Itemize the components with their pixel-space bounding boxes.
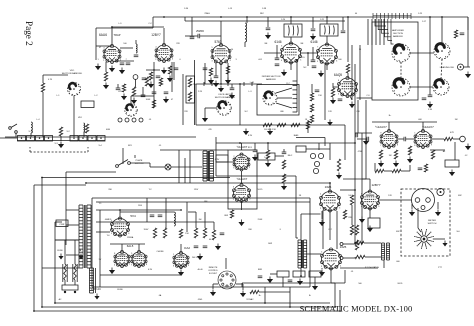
- wire ts rail: [270, 273, 277, 275]
- wire strip down: [282, 277, 284, 287]
- wire T1 top to grid upper: [301, 213, 321, 215]
- plate switch contact b: [128, 162, 131, 165]
- svg-text:SW: SW: [108, 189, 111, 191]
- wire 6AU6 cathode: [105, 62, 107, 72]
- wire vert x185: [184, 17, 186, 21]
- capacitor C49 12BY7: [156, 76, 161, 78]
- wire y84 tick e: [251, 82, 253, 86]
- fuse F1 wavy: [64, 264, 67, 280]
- keying relay box: [296, 146, 306, 152]
- resistor R6 screen dropping: [188, 92, 191, 101]
- resistor R23 audio out: [444, 137, 453, 140]
- HV label box: [216, 155, 228, 162]
- ground ps caps: [197, 254, 203, 261]
- wire audio lower vert: [374, 163, 376, 171]
- ground top mid cap: [265, 33, 271, 40]
- capacitor C12 6AQ5: [338, 99, 343, 101]
- wire L2 horiz y177: [42, 177, 230, 179]
- svg-text:½12AX7: ½12AX7: [237, 145, 248, 149]
- filament transformer T3: [203, 151, 207, 181]
- wire neut b: [312, 47, 314, 60]
- wire L4 vert x55: [54, 222, 56, 303]
- svg-text:PLATE: PLATE: [136, 159, 143, 162]
- wire top bus second: [185, 20, 345, 22]
- wire padder: [231, 84, 233, 88]
- capacitor trap: [134, 55, 139, 57]
- junction at 362,243: [361, 242, 363, 244]
- transformer tap d: [66, 254, 79, 256]
- neon lamp NE3: [314, 161, 319, 166]
- resistor R10: [85, 124, 88, 133]
- wire x366 ext: [365, 125, 367, 179]
- svg-text:BANDSW.: BANDSW.: [266, 78, 277, 81]
- svg-text:6.3V: 6.3V: [248, 135, 253, 137]
- wire x308 riser: [307, 120, 309, 133]
- resistor R8 VFO: [41, 83, 44, 92]
- ground C44: [213, 81, 219, 88]
- wire plug b: [74, 280, 76, 285]
- wire OA2 top: [180, 244, 182, 253]
- tube V11 1625 modulator: [320, 190, 341, 212]
- wire switch left: [205, 107, 217, 109]
- wire V13 plate: [369, 179, 371, 191]
- ground R44: [265, 161, 271, 168]
- driver transformer T1 secondary: [304, 240, 307, 268]
- wire right mid vert x358: [357, 100, 359, 133]
- svg-text:250K: 250K: [258, 219, 263, 221]
- resistor R1 6AU6 cathode: [104, 72, 107, 81]
- capacitor C42: [164, 92, 169, 94]
- ground mic body: [409, 210, 415, 217]
- neon lamp NE2: [318, 153, 323, 158]
- svg-text:GND: GND: [198, 299, 203, 301]
- wire V8 out: [431, 138, 444, 140]
- tube V2 12BY7 buffer: [155, 43, 173, 62]
- junction mod screen: [354, 189, 356, 191]
- wire y202 ps: [96, 201, 310, 203]
- capacitor C50 ps: [220, 233, 225, 235]
- svg-text:BANDSW.: BANDSW.: [393, 35, 404, 38]
- wire L2 vert x42: [41, 178, 43, 308]
- svg-text:SECTION BANDSW.: SECTION BANDSW.: [62, 72, 83, 75]
- svg-text:P-1 PH. PATCH: P-1 PH. PATCH: [365, 266, 380, 269]
- ground C30a: [310, 34, 316, 41]
- svg-text:115V: 115V: [194, 189, 199, 191]
- junction at 164,17: [163, 16, 165, 18]
- wire plug a3: [66, 264, 68, 282]
- wire crystal row left stub: [0, 137, 17, 139]
- wire bottom bus to mod: [339, 290, 341, 311]
- capacitor C41: [141, 95, 146, 97]
- wire vert 6AQ5 screen: [347, 17, 349, 62]
- terminal strip TS1: [277, 271, 289, 277]
- wire speech box down: [241, 201, 243, 210]
- resistor R11 divider: [310, 93, 313, 101]
- wire feeder x368: [367, 19, 369, 45]
- resistor R45 ps: [194, 228, 197, 238]
- junction at 154,70: [153, 69, 155, 71]
- transformer tap b: [66, 224, 79, 226]
- svg-text:100K: 100K: [146, 99, 151, 101]
- resistor R46 ps: [203, 228, 206, 238]
- wire crystal row lower rail: [17, 140, 105, 142]
- tube V4 6146 final amplifier: [281, 42, 302, 64]
- wire y283: [301, 282, 345, 284]
- svg-text:12BY7: 12BY7: [371, 183, 380, 187]
- wire grid left: [95, 46, 97, 60]
- fuse F2 wavy: [74, 264, 77, 280]
- capacitor C46 ps: [194, 246, 199, 248]
- wire 5763 to switch: [220, 63, 222, 84]
- terminal strip accessory: [445, 160, 459, 167]
- tube V7 12AX7 audio amp: [380, 129, 398, 148]
- ground crystal center: [58, 142, 64, 149]
- wire audio lower rail 2: [401, 170, 410, 172]
- ground 12BY7 cathode: [167, 76, 173, 83]
- junction at 301,276: [300, 275, 302, 277]
- svg-text:SCHEMATIC MODEL DX-100: SCHEMATIC MODEL DX-100: [300, 304, 413, 314]
- wire trap join: [120, 47, 133, 49]
- wire L1 horiz y172: [66, 171, 116, 173]
- junction y143 a: [239, 142, 241, 144]
- speech amp enclosure box: [228, 150, 257, 209]
- svg-text:470K: 470K: [358, 151, 363, 153]
- wire vert RF choke top: [246, 17, 248, 23]
- ground 6AQ5 cathode: [349, 102, 355, 109]
- wire cap gnd arrow: [267, 17, 269, 27]
- capacitor C16 audio coupling: [404, 137, 406, 142]
- wire between finals: [301, 52, 318, 54]
- box VFO trimmer: [81, 101, 94, 108]
- ground output jack: [465, 72, 471, 79]
- wire R23 to J3: [453, 138, 460, 140]
- wire mod y283 b: [344, 270, 346, 283]
- capacitor C30a: [311, 29, 316, 31]
- junction bus c: [41, 306, 43, 308]
- svg-text:CONTROL: CONTROL: [208, 270, 219, 272]
- wire fuse left rail: [55, 239, 65, 241]
- wire feeder x372b: [371, 19, 373, 45]
- svg-text:6.3V: 6.3V: [215, 159, 220, 161]
- wire loading cap riser: [429, 43, 431, 95]
- ground below 5763: [218, 86, 224, 93]
- resistor R4 12BY7 cathode: [168, 66, 171, 74]
- wire audio term a2: [364, 242, 381, 244]
- driver switch fan a: [276, 88, 292, 93]
- svg-text:6AQ5: 6AQ5: [334, 73, 342, 77]
- trap coil L5: [136, 44, 137, 53]
- wire HV feeder x355: [354, 64, 356, 243]
- resistor R43: [226, 66, 229, 74]
- svg-text:20K 10W: 20K 10W: [192, 257, 200, 259]
- junction bus b: [289, 306, 291, 308]
- svg-text:6.3V: 6.3V: [148, 269, 153, 271]
- coil L2: [84, 123, 85, 132]
- microphone connector pin 2: [426, 198, 431, 203]
- phone jack J3: [460, 136, 466, 142]
- wire meter link: [418, 228, 421, 232]
- junction at 240,84: [239, 83, 241, 85]
- wire speech to T1 vert: [295, 176, 297, 238]
- wire 6AU6 plate: [111, 38, 113, 46]
- svg-text:PWR: PWR: [60, 224, 65, 226]
- junction at 340,311: [339, 310, 341, 312]
- junction at 221,84: [220, 83, 222, 85]
- svg-text:25MFD: 25MFD: [196, 30, 204, 33]
- power transformer lower winding: [90, 268, 94, 293]
- wire coil bus: [196, 83, 262, 85]
- wire V12 down: [330, 269, 332, 284]
- wire audio term b: [343, 257, 355, 259]
- svg-text:1M: 1M: [455, 119, 458, 121]
- capacitor C5 12BY7 bypass: [174, 68, 179, 70]
- wire x194 vert: [194, 60, 196, 125]
- wire riser x166: [165, 198, 167, 228]
- ground R43: [225, 78, 231, 85]
- power supply chassis left: [91, 198, 93, 287]
- wire lamp to transformer: [171, 166, 202, 168]
- wire feeder x380: [379, 19, 381, 45]
- wire ps down x205: [204, 212, 206, 228]
- ground osc grid leak: [95, 64, 101, 71]
- wire 6AQ5 grid: [333, 86, 339, 88]
- crystal mic jack pin: [440, 191, 442, 193]
- pilot lamp: [165, 164, 171, 170]
- wire speech to T1 corner: [296, 237, 298, 239]
- junction bottom bus: [54, 302, 56, 304]
- power supply chassis top2: [92, 197, 310, 199]
- wire loading top: [441, 17, 443, 43]
- wire T3 core a: [207, 151, 209, 181]
- wire x143: [142, 87, 144, 95]
- wire V8 plate: [422, 122, 424, 131]
- wire ps label rail: [96, 231, 110, 233]
- box screen divider: [186, 76, 195, 103]
- crystal socket pin c2: [125, 118, 129, 122]
- power transformer T4 primary: [79, 205, 83, 268]
- crystal socket X4: [45, 136, 53, 142]
- ground 6146 no2 cathode: [318, 71, 324, 78]
- wire osc plate horiz: [96, 45, 112, 47]
- ground 6AU6 cathode: [103, 83, 109, 90]
- junction at 291,17: [290, 16, 292, 18]
- svg-text:1M: 1M: [409, 151, 412, 153]
- terminal strip TS3: [309, 271, 321, 277]
- ground 6AL5: [109, 268, 115, 275]
- wire L1 vert x66: [65, 172, 67, 245]
- svg-text:SWITCH: SWITCH: [428, 223, 437, 225]
- wire vert x96 osc plate: [95, 28, 97, 46]
- wire key jack lead: [135, 80, 137, 88]
- ground loading caps: [427, 102, 433, 109]
- junction at 112,27: [111, 26, 113, 28]
- wire divider top: [311, 84, 313, 93]
- wire 1625 plate tie: [329, 183, 331, 191]
- crystal socket X6 pin: [82, 138, 83, 139]
- power transformer core b: [85, 205, 87, 268]
- resistor R51 OA2 dropping: [179, 229, 182, 238]
- wire mod bias vert: [351, 205, 353, 225]
- tube V12 1625 modulator: [321, 248, 342, 270]
- svg-text:10W: 10W: [268, 243, 272, 245]
- resistor R41: [159, 78, 162, 86]
- wire ps riser x190: [189, 150, 191, 183]
- wire mic pin to meter b: [437, 202, 439, 209]
- crystal socket X4 pin: [48, 138, 49, 139]
- wire right verts x352: [351, 45, 353, 100]
- junction at 335,307: [334, 306, 336, 308]
- wire xtal switch up: [130, 96, 132, 104]
- ground ts: [267, 277, 273, 284]
- crystal socket X2: [27, 136, 35, 142]
- svg-text:½12AX7: ½12AX7: [422, 125, 434, 129]
- capacitor C20 filter: [158, 215, 163, 217]
- resistor R19 bias bleeder: [337, 159, 340, 171]
- wire finals grid down: [307, 53, 309, 66]
- wire speech box top: [241, 143, 243, 150]
- wire bias rail: [306, 148, 330, 150]
- svg-text:2.2K: 2.2K: [198, 91, 203, 93]
- wire fuse top a: [64, 240, 66, 264]
- wire plate switch right: [130, 162, 150, 164]
- ground J3: [465, 144, 471, 151]
- wire 12BY7 plate: [163, 28, 165, 45]
- wire plate switch corner: [149, 163, 151, 167]
- wire neut a: [276, 45, 278, 58]
- wire trap top: [135, 40, 137, 44]
- wire x216 vert: [215, 137, 217, 162]
- dashed gang line crystal selector: [30, 151, 88, 153]
- wire top verts x313: [312, 17, 314, 28]
- capacitor C11 6146 bypass: [312, 66, 317, 68]
- dashed shaft S4: [400, 62, 402, 78]
- wire L3 bottom: [34, 310, 340, 312]
- ground accessory: [449, 170, 455, 177]
- wire comb top to bus: [296, 60, 298, 81]
- wire y84 tick b: [211, 82, 213, 86]
- svg-text:DRIVER SECTION: DRIVER SECTION: [262, 76, 281, 78]
- wire bottom mid: [259, 291, 290, 293]
- capacitor C15 HV filter: [356, 133, 358, 138]
- tank coil L6 above 6146: [284, 24, 302, 37]
- wire plug a: [64, 280, 66, 285]
- ground osc cluster: [121, 94, 127, 101]
- wire x325 vert: [324, 64, 326, 120]
- svg-text:½12AX7: ½12AX7: [375, 125, 387, 129]
- svg-text:40MFD: 40MFD: [105, 219, 112, 221]
- tube V15 6AL5: [114, 250, 130, 267]
- wire vert 6146 tank 2: [326, 17, 328, 24]
- wire x228 vert: [227, 63, 229, 80]
- plug prong b: [74, 291, 76, 293]
- tone network box: [368, 218, 380, 228]
- wire 1625 cath a: [321, 211, 323, 219]
- wire choke to bus: [244, 42, 246, 47]
- junction at 327,17: [326, 16, 328, 18]
- svg-text:½12AX7: ½12AX7: [237, 177, 248, 181]
- wire audio in: [357, 138, 367, 140]
- wire right mid horiz y133: [355, 132, 372, 134]
- capacitor C2 osc bypass: [120, 63, 125, 65]
- junction ps: [119, 209, 121, 211]
- wire driver bottom bus: [196, 124, 345, 126]
- wire coil2 to 6146: [326, 36, 328, 45]
- wire VFO top: [43, 74, 68, 76]
- wire fuse rail: [65, 239, 79, 241]
- resistor R49 mod cathode: [343, 210, 346, 219]
- T1 core line a: [301, 240, 303, 268]
- wire 6146 no2 down: [326, 64, 328, 71]
- power supply chassis right: [309, 198, 311, 287]
- svg-text:1625: 1625: [325, 185, 332, 189]
- resistor R33 V13: [355, 240, 358, 250]
- crystal socket X8 pin: [100, 138, 101, 139]
- rotary switch S4B amplifier bandswitch wafer: [392, 78, 410, 96]
- pilot lamp filament: [166, 165, 170, 169]
- ground below 12BY7: [161, 68, 167, 75]
- wire L2 bottom: [42, 306, 335, 308]
- ground transformer lower: [94, 294, 99, 300]
- resistor R5 screen dropping: [188, 78, 191, 87]
- junction at 247,17: [246, 16, 248, 18]
- crystal socket X3: [36, 136, 44, 142]
- transformer tap e: [42, 267, 79, 269]
- junction ps2: [180, 209, 182, 211]
- wire feeder x384: [383, 19, 385, 45]
- svg-text:25MH: 25MH: [204, 13, 210, 15]
- wire audio term a: [343, 243, 355, 245]
- wire 5763 cath: [215, 63, 217, 76]
- tube V13 12BY7 speech driver: [361, 190, 380, 210]
- power transformer T4 secondary: [87, 205, 91, 268]
- wire VFO left vert lower: [42, 92, 44, 137]
- resistor R44 bias: [266, 150, 269, 159]
- microphone connector body: [412, 189, 435, 212]
- resistor R32 V13: [355, 225, 358, 235]
- tube V1 6AU6 crystal oscillator: [103, 44, 121, 63]
- wire 6146 no1 down: [290, 63, 292, 71]
- ground osc switch: [202, 116, 208, 123]
- rotary switch S3 driver bandswitch: [263, 91, 277, 105]
- wire top B+ bus: [153, 16, 468, 18]
- wire VFO left vert: [42, 75, 44, 83]
- resistor R9: [59, 127, 62, 136]
- wire ps riser x179: [178, 150, 180, 183]
- wire vert right bus: [467, 17, 469, 64]
- line plug body: [62, 285, 78, 290]
- wire 5763 plate: [220, 21, 222, 45]
- junction at 86,183: [85, 182, 87, 184]
- svg-text:6AU6: 6AU6: [99, 33, 107, 37]
- rotary switch S5B loading switch wafer: [433, 79, 449, 95]
- ground below 6AU6: [109, 66, 115, 73]
- svg-text:CHOKE: CHOKE: [156, 251, 164, 253]
- power transformer core a: [84, 205, 86, 268]
- low power switch box: [56, 220, 68, 227]
- wire meter right: [433, 238, 445, 240]
- capacitor C8 padder: [230, 88, 235, 90]
- wire V7 plate: [388, 122, 390, 131]
- capacitor C10 6146 bypass: [275, 64, 280, 66]
- wire speech bus: [257, 155, 258, 157]
- resistor R22 V8 cathode: [394, 150, 397, 159]
- wire V13 down: [369, 209, 371, 219]
- resistor R7: [152, 100, 155, 108]
- wire vert 6146 tank 1: [290, 17, 292, 24]
- resistor R28 speech: [282, 174, 285, 183]
- wire fuse top b: [74, 240, 76, 264]
- wire bias bus y143 ext: [216, 142, 296, 144]
